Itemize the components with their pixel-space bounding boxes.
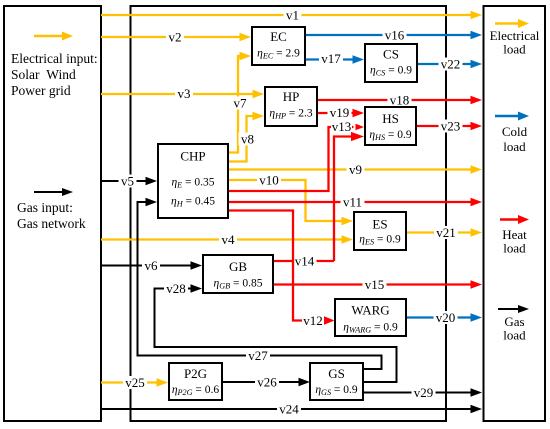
wire v15: GB heat to heat load	[274, 283, 471, 285]
wire v12: CHP heat to WARG	[229, 211, 324, 321]
svg-text:v17: v17	[321, 51, 341, 66]
label v21	[434, 226, 458, 239]
label v11	[341, 196, 365, 209]
svg-text:v12: v12	[303, 313, 323, 328]
label v26	[255, 376, 279, 389]
input container box (left)	[4, 6, 101, 421]
svg-text:v8: v8	[241, 131, 254, 146]
svg-text:v28: v28	[166, 281, 186, 296]
svg-text:v10: v10	[259, 172, 279, 187]
load container box (right)	[484, 6, 546, 421]
label v9	[347, 163, 365, 176]
svg-text:load: load	[503, 241, 526, 256]
heat pump HP	[265, 87, 317, 126]
wire v9: CHP electricity to electrical load	[229, 168, 471, 170]
electrical input legend arrow	[34, 35, 63, 37]
label v1	[284, 9, 302, 22]
svg-text:Cold: Cold	[502, 124, 528, 139]
svg-text:v16: v16	[385, 27, 405, 42]
electrical storage ES	[354, 212, 406, 250]
svg-text:v26: v26	[257, 374, 277, 389]
wire v29: GS gas to gas load	[364, 392, 472, 394]
svg-text:v27: v27	[248, 348, 268, 363]
svg-text:v25: v25	[125, 375, 145, 390]
wire v21: ES discharge to electrical load	[407, 231, 471, 233]
svg-text:Gas network: Gas network	[17, 216, 86, 231]
label v25	[123, 376, 147, 389]
wire v19: HP heat to HS	[318, 112, 354, 114]
energy hub container box (middle)	[131, 6, 447, 421]
label v10	[257, 174, 281, 187]
svg-text:CS: CS	[383, 47, 399, 62]
label v2	[166, 31, 184, 44]
svg-text:v7: v7	[234, 95, 248, 110]
wire v3: electricity to HP	[101, 93, 255, 95]
wire v26: P2G gas to GS	[223, 381, 300, 383]
svg-text:HS: HS	[382, 111, 399, 126]
svg-text:GS: GS	[328, 366, 345, 381]
svg-text:v4: v4	[222, 232, 236, 247]
svg-text:v18: v18	[390, 92, 410, 107]
absorption chiller WARG	[335, 299, 406, 336]
svg-text:v9: v9	[349, 162, 362, 177]
svg-text:v23: v23	[441, 118, 461, 133]
gas storage GS	[310, 363, 363, 400]
wire v1: grid electricity to electrical load	[101, 14, 471, 16]
wire v10: CHP electricity to ES	[229, 180, 343, 221]
svg-text:v21: v21	[436, 225, 456, 240]
heat load legend arrow	[500, 218, 519, 220]
wire v25: electricity to P2G	[101, 381, 158, 383]
gas boiler GB	[203, 255, 273, 293]
label v12	[302, 314, 324, 327]
svg-text:load: load	[503, 328, 526, 343]
svg-text:v3: v3	[178, 86, 191, 101]
svg-text:WARG: WARG	[351, 303, 389, 318]
svg-text:P2G: P2G	[184, 366, 207, 381]
gas load legend arrow	[498, 308, 518, 310]
wire v2: electricity to EC	[101, 36, 242, 38]
wire v7: CHP electricity to EC	[229, 56, 241, 153]
CHP unit	[158, 144, 228, 218]
svg-text:Electrical input:: Electrical input:	[11, 51, 98, 66]
svg-text:EC: EC	[270, 29, 287, 44]
label v23	[439, 120, 463, 133]
wire v28: GS gas to GB	[155, 289, 397, 383]
label v6	[142, 259, 160, 272]
svg-text:v6: v6	[145, 258, 159, 273]
wire v24: gas network to gas load	[101, 408, 472, 410]
label v7	[231, 97, 249, 110]
wire v5: gas to CHP	[101, 180, 147, 182]
gas input legend arrow	[34, 191, 62, 193]
svg-text:v13: v13	[332, 119, 352, 134]
label v4	[219, 233, 237, 246]
svg-text:v22: v22	[441, 56, 461, 71]
wire v4: electricity to ES	[101, 238, 343, 240]
wire v8: CHP electricity to HP	[229, 116, 254, 162]
wire v22: CS discharge to cold load	[418, 63, 471, 65]
label v19	[328, 106, 352, 119]
svg-text:v19: v19	[330, 105, 350, 120]
label v20	[434, 311, 458, 324]
cold load legend arrow	[495, 115, 519, 117]
label v17	[319, 52, 343, 65]
wire v17: EC cold to CS	[306, 58, 354, 60]
svg-text:v2: v2	[169, 29, 182, 44]
wire v20: WARG cold to cold load	[407, 316, 471, 318]
wire v14: GB heat to HS and heat bus	[274, 137, 351, 262]
svg-text:v11: v11	[343, 194, 362, 209]
label v5	[119, 175, 137, 188]
svg-text:ES: ES	[372, 217, 387, 232]
wire v18: HP heat to heat load	[318, 99, 471, 101]
svg-text:v15: v15	[365, 277, 385, 292]
label v16	[383, 29, 407, 42]
svg-text:v20: v20	[436, 310, 456, 325]
wire v11: CHP heat to heat load	[229, 201, 471, 203]
svg-text:v24: v24	[279, 401, 299, 416]
label v3	[175, 87, 193, 100]
label v15	[363, 278, 387, 291]
svg-text:v14: v14	[295, 253, 315, 268]
label v18	[388, 94, 412, 107]
svg-text:CHP: CHP	[180, 149, 205, 164]
svg-text:v29: v29	[414, 385, 434, 400]
electric chiller EC	[252, 27, 305, 65]
wire v13: CHP heat to HS	[229, 127, 354, 191]
svg-text:v1: v1	[286, 7, 299, 22]
label v13	[331, 120, 352, 133]
svg-text:Power grid: Power grid	[11, 83, 71, 98]
power to gas P2G	[169, 363, 222, 400]
svg-text:v5: v5	[121, 173, 134, 188]
wire v6: gas to GB	[101, 265, 192, 267]
label v28	[164, 282, 188, 295]
svg-text:Solar Wind: Solar Wind	[11, 67, 76, 82]
label v14	[293, 255, 317, 268]
wire v16: EC cold to load	[306, 34, 471, 36]
svg-text:load: load	[503, 139, 526, 154]
label v27	[246, 349, 270, 362]
cold storage CS	[365, 44, 417, 82]
label v29	[412, 386, 436, 399]
svg-text:load: load	[503, 42, 526, 57]
wire v27: GS gas to CHP	[138, 202, 382, 369]
wire v23: HS discharge to heat load	[417, 125, 471, 127]
label v8	[239, 133, 257, 146]
label v24	[277, 403, 301, 416]
svg-text:GB: GB	[229, 259, 247, 274]
label v22	[439, 58, 463, 71]
electrical load legend arrow	[495, 22, 519, 24]
svg-text:HP: HP	[283, 89, 300, 104]
heat storage HS	[365, 107, 416, 145]
svg-text:Gas input:: Gas input:	[17, 200, 73, 215]
